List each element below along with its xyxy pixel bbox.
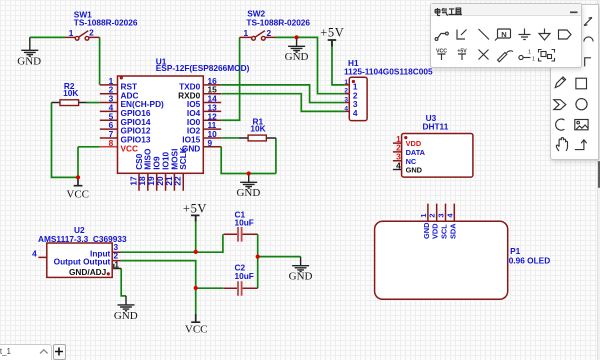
svg-text:10K: 10K: [250, 124, 265, 134]
svg-text:3: 3: [344, 97, 348, 104]
svg-text:1: 1: [69, 28, 74, 38]
svg-text:3: 3: [437, 213, 446, 217]
svg-text:VCC: VCC: [66, 188, 89, 200]
svg-text:GND: GND: [17, 56, 41, 68]
svg-text:VCC: VCC: [121, 143, 139, 153]
svg-text:VCC: VCC: [185, 323, 208, 335]
svg-text:TS-1088R-02026: TS-1088R-02026: [246, 18, 310, 28]
svg-text:2: 2: [344, 88, 348, 95]
svg-text:1: 1: [419, 213, 428, 217]
svg-text:GND: GND: [236, 187, 260, 199]
svg-text:2: 2: [428, 213, 437, 217]
svg-text:0.96 OLED: 0.96 OLED: [509, 255, 551, 265]
svg-text:+5V: +5V: [183, 202, 207, 216]
svg-text:DHT11: DHT11: [423, 122, 449, 132]
svg-text:SCLK: SCLK: [178, 147, 188, 170]
svg-text:GND: GND: [114, 310, 138, 322]
svg-text:4: 4: [353, 108, 358, 118]
svg-text:GND: GND: [422, 222, 431, 239]
svg-text:GND: GND: [406, 166, 423, 175]
svg-text:+5V: +5V: [320, 25, 344, 39]
svg-text:22: 22: [173, 176, 183, 186]
svg-text:2: 2: [89, 28, 94, 38]
svg-text:4: 4: [445, 213, 454, 218]
svg-text:10uF: 10uF: [235, 218, 254, 228]
svg-text:GND: GND: [285, 51, 309, 63]
svg-text:10uF: 10uF: [235, 271, 254, 281]
svg-text:DATA: DATA: [406, 148, 426, 157]
svg-text:1125-1104G0S118C005: 1125-1104G0S118C005: [344, 66, 433, 76]
svg-text:4: 4: [396, 160, 401, 170]
svg-text:2: 2: [266, 28, 271, 38]
svg-text:4: 4: [32, 248, 37, 258]
svg-text:VDD: VDD: [431, 223, 440, 239]
svg-text:GND/ADJ: GND/ADJ: [69, 267, 107, 277]
svg-text:1: 1: [532, 57, 535, 63]
svg-text:VDD: VDD: [406, 139, 422, 148]
svg-text:1: 1: [344, 79, 348, 86]
svg-text:TS-1088R-02026: TS-1088R-02026: [74, 18, 138, 28]
svg-text:1: 1: [114, 259, 119, 269]
svg-text:1: 1: [528, 50, 531, 56]
svg-text:4: 4: [344, 105, 348, 112]
svg-text:SDA: SDA: [448, 223, 457, 239]
svg-text:GND: GND: [289, 271, 313, 283]
svg-text:NC: NC: [406, 157, 417, 166]
svg-text:10K: 10K: [63, 88, 78, 98]
svg-text:ESP-12F(ESP8266MOD): ESP-12F(ESP8266MOD): [156, 63, 250, 73]
svg-text:9: 9: [208, 138, 213, 148]
svg-text:8: 8: [109, 138, 114, 148]
svg-text:N: N: [501, 30, 506, 39]
svg-text:1: 1: [243, 28, 248, 38]
svg-text:Output Output: Output Output: [54, 256, 111, 266]
svg-text:SCL: SCL: [440, 224, 449, 239]
